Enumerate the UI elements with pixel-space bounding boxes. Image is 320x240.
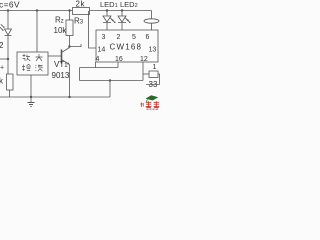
node collector junction [68,45,70,47]
label 检 [22,64,31,71]
wire box bottom to ground [30,75,32,97]
svg-text:4: 4 [96,56,100,63]
node rail-photodiode junction [7,9,9,11]
watermark logo red character 1 [146,101,152,107]
svg-text:2k: 2k [76,0,86,9]
svg-text:3: 3 [102,34,106,41]
wire top power rail [0,10,152,12]
svg-text:13: 13 [149,47,157,54]
wire photodiode branch upper [7,11,9,30]
svg-text:c=6V: c=6V [0,0,20,10]
node rail-Rz junction [68,9,70,11]
node rail-box junction [36,9,38,11]
LED1 [103,11,116,31]
label 大 [36,54,43,61]
wire rail riser [109,81,111,98]
svg-text:LED2: LED2 [120,0,138,9]
wire base [48,55,62,57]
watermark logo green cap [146,95,159,100]
ground symbol [28,97,35,107]
wire ground bus drop [79,68,81,81]
photodiode VD [0,24,12,74]
svg-text:2: 2 [0,41,4,50]
label 放 [23,54,31,61]
svg-text:10k: 10k [54,26,68,35]
wire ground bus lower [80,80,144,82]
svg-text:5: 5 [132,34,136,41]
svg-text:LED1: LED1 [100,0,118,9]
watermark logo red character 2 [154,101,160,107]
svg-text:k: k [0,77,4,86]
watermark logo small marks [140,103,143,108]
wire bottom ground rail [0,96,110,98]
svg-text:12: 12 [140,56,148,63]
wire stub to left edge [0,58,8,60]
resistor R1 (left, polarized marking) [7,74,14,90]
node ground junction [30,96,32,98]
node rail-LED2 junction [121,9,123,11]
svg-text:Rz: Rz [55,16,64,25]
svg-text:9013: 9013 [52,71,70,80]
wire Rz bottom to collector node [69,36,71,47]
block amplifier-detector box [17,52,48,75]
wire amplifier box top feed [36,11,38,53]
resistor R4 33k [149,71,158,78]
wire R4 right return [146,74,160,85]
wire pin4 lead [95,62,97,68]
IC U1 CW168 box [96,30,158,62]
resistor Rz lead top [69,11,71,21]
svg-text:16: 16 [115,56,123,63]
node bus-rail junction [109,79,111,81]
label 波 [35,65,42,72]
piezo sounder B [151,11,153,19]
wire pin12 lead [142,62,144,81]
svg-text:CW168: CW168 [110,43,143,52]
LED2 [118,11,131,31]
wire left branch to ground rail [9,90,11,97]
svg-text:1: 1 [153,64,157,71]
wire pin14 feed from rail [89,11,97,48]
node emitter-ground junction [68,96,70,98]
transistor VT1 [62,48,70,65]
resistor R3 2k [73,8,90,15]
svg-text:14: 14 [98,47,106,54]
wire pin16 lead [117,62,119,68]
node rail-LED1 junction [106,9,108,11]
wire ground bus upper [80,67,119,69]
svg-text:R3: R3 [74,17,84,26]
svg-text:VT1: VT1 [54,60,68,69]
svg-text:6: 6 [146,34,150,41]
wire collector node stub [70,44,82,47]
wire pin12 to R4 [143,73,149,75]
svg-text:+: + [0,65,4,72]
resistor Rz 10k [66,20,73,36]
svg-text:2: 2 [117,34,121,41]
wire emitter to ground rail [69,65,71,98]
node junction photodiode-left [7,58,9,60]
